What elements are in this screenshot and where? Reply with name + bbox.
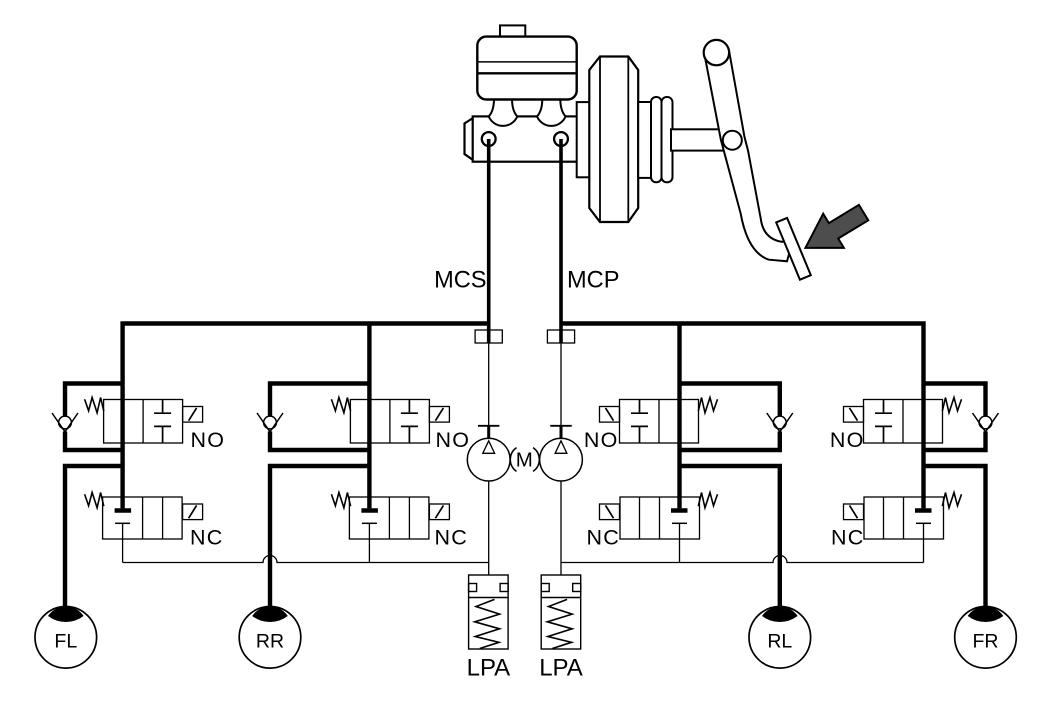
LPA 2: [541, 575, 581, 649]
valve NC RL: [600, 493, 718, 563]
svg-text:M: M: [516, 449, 533, 472]
pump 1 inlet tee: [478, 425, 499, 427]
wheel FL: [35, 606, 97, 668]
pump 2 inlet tee: [550, 425, 571, 427]
check valve FL: [52, 413, 78, 432]
booster ring plate: [638, 102, 654, 178]
svg-text:LPA: LPA: [539, 654, 583, 681]
svg-text:FL: FL: [54, 631, 77, 653]
svg-text:RR: RR: [256, 631, 284, 653]
wire RL main drop: [677, 324, 681, 509]
booster ring 1: [651, 97, 662, 182]
svg-text:MCP: MCP: [567, 268, 619, 294]
svg-text:NO: NO: [830, 428, 865, 452]
wire right bus + FR main drop: [561, 324, 924, 509]
svg-text:NC: NC: [190, 526, 223, 550]
wire MCS suction line: [488, 343, 490, 426]
wire left return line with jump over RR wheel line: [123, 556, 489, 563]
valve NO FL: [85, 398, 203, 444]
booster ring 2: [662, 97, 673, 182]
wire RR main drop: [367, 324, 371, 509]
booster spacer: [577, 102, 591, 177]
pedal pad: [776, 218, 811, 280]
valve NO RR: [331, 398, 449, 444]
wire RR bypass loop: [270, 384, 369, 451]
wire left bus + FL main drop: [123, 324, 489, 509]
pedal arm top circle: [704, 40, 729, 65]
wire FL wheel branch: [65, 466, 123, 614]
check valve RL: [767, 413, 793, 432]
svg-text:MCS: MCS: [434, 268, 486, 294]
wire right return line with jump over RL wheel line: [561, 556, 924, 563]
reservoir port left: [489, 100, 518, 126]
wire MCS pipe down: [487, 139, 491, 343]
arrow (press pedal): [805, 205, 868, 248]
wire RL wheel branch: [680, 466, 780, 614]
MC outlet port MCS: [482, 132, 496, 146]
svg-text:NO: NO: [584, 428, 619, 452]
valve NO FR: [844, 398, 962, 444]
check valve FR: [973, 413, 999, 432]
svg-text:NC: NC: [587, 526, 620, 550]
wire RL bypass loop: [680, 384, 780, 451]
svg-text:NO: NO: [436, 428, 471, 452]
wire pump1 to LPA1: [488, 481, 490, 575]
wheel FR: [955, 606, 1017, 668]
valve NC FL: [85, 493, 203, 563]
master cylinder body: [473, 116, 583, 161]
booster shell: [589, 57, 638, 223]
wire FR bypass loop: [924, 384, 986, 451]
wheel RR: [239, 606, 301, 668]
LPA 1: [469, 575, 509, 649]
damper MCP: [547, 330, 574, 343]
wire FR wheel branch: [924, 466, 986, 614]
motor M: [510, 448, 539, 472]
valve NC FR: [844, 493, 962, 563]
wire RR wheel branch: [270, 466, 369, 614]
wire FL bypass loop: [65, 384, 123, 451]
check valve RR: [257, 413, 283, 432]
pump 1: [467, 438, 510, 481]
valve NO RL: [600, 398, 718, 444]
wire MCP suction line: [560, 343, 562, 426]
svg-text:RL: RL: [767, 631, 792, 653]
MC outlet port MCP: [554, 132, 568, 146]
svg-text:NC: NC: [435, 526, 468, 550]
reservoir port right: [537, 100, 566, 126]
reservoir cap: [500, 25, 525, 37]
svg-text:NO: NO: [191, 428, 226, 452]
pedal arm: [705, 51, 793, 262]
wire MCP pipe down: [559, 139, 563, 343]
svg-text:NC: NC: [831, 526, 864, 550]
reservoir: [477, 37, 576, 100]
reservoir level lines: [477, 61, 576, 63]
valve NC RR: [331, 493, 449, 563]
pedal pivot: [723, 131, 742, 150]
push rod: [671, 129, 730, 150]
wheel RL: [749, 606, 811, 668]
master cylinder end cap: [465, 118, 474, 161]
svg-text:LPA: LPA: [467, 654, 511, 681]
wire pump2 to LPA2: [560, 481, 562, 575]
pump 2: [540, 438, 583, 481]
damper MCS: [475, 330, 502, 343]
svg-text:FR: FR: [973, 631, 999, 653]
